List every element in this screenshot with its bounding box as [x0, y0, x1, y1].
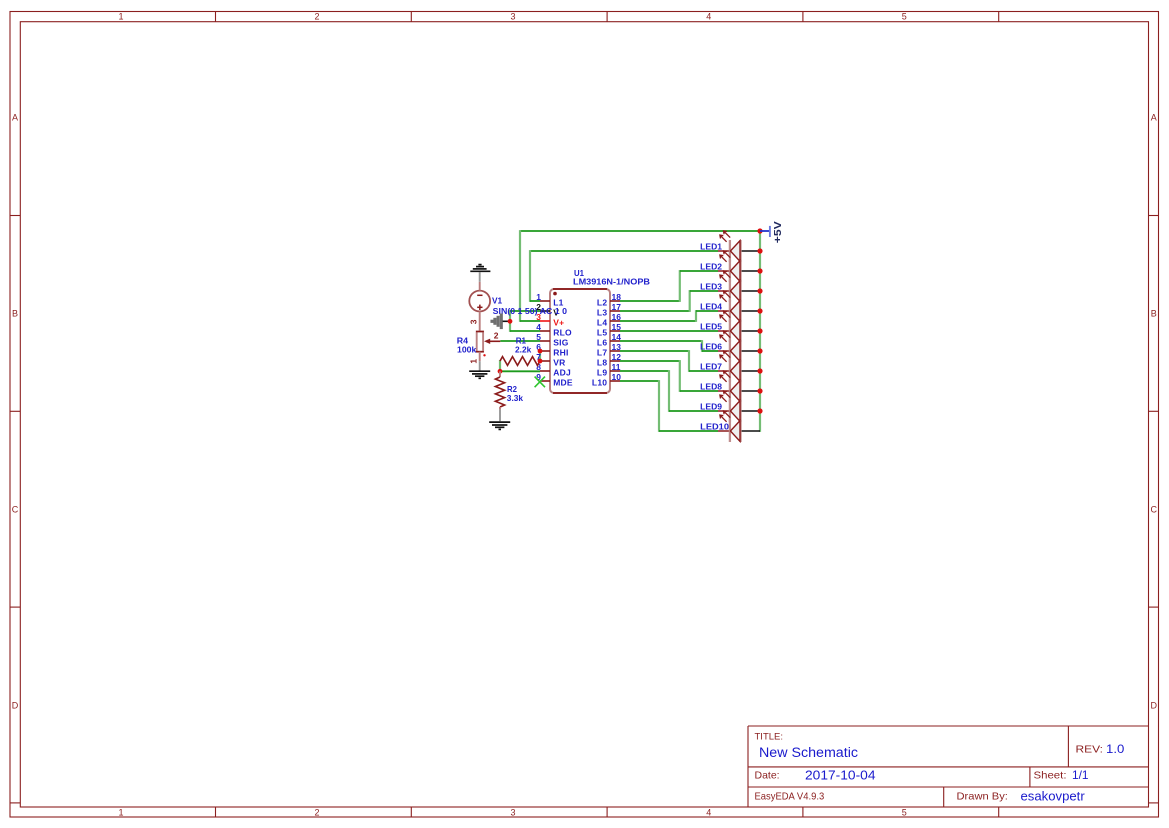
svg-text:V+: V+ [553, 317, 564, 327]
svg-text:C: C [12, 505, 19, 515]
svg-text:1: 1 [536, 292, 541, 302]
svg-text:RLO: RLO [553, 327, 572, 337]
svg-text:1: 1 [118, 807, 123, 817]
svg-text:MDE: MDE [553, 377, 573, 387]
svg-text:A: A [1151, 113, 1157, 123]
svg-text:2017-10-04: 2017-10-04 [805, 769, 876, 783]
svg-text:14: 14 [612, 332, 622, 342]
svg-text:VR: VR [553, 357, 565, 367]
svg-text:EasyEDA V4.9.3: EasyEDA V4.9.3 [755, 791, 825, 803]
svg-text:A: A [12, 113, 18, 123]
svg-text:LED5: LED5 [700, 321, 722, 331]
svg-text:C: C [1151, 505, 1158, 515]
svg-text:New Schematic: New Schematic [759, 745, 858, 760]
svg-text:LED6: LED6 [700, 341, 722, 351]
svg-text:1.0: 1.0 [1106, 742, 1125, 756]
svg-text:RHI: RHI [553, 347, 568, 357]
svg-text:L8: L8 [597, 357, 607, 367]
svg-text:5: 5 [536, 332, 541, 342]
svg-text:2: 2 [314, 12, 319, 22]
svg-text:16: 16 [612, 312, 622, 322]
svg-text:esakovpetr: esakovpetr [1021, 790, 1085, 804]
svg-text:LED1: LED1 [700, 241, 722, 251]
svg-text:L10: L10 [592, 377, 607, 387]
svg-text:2.2k: 2.2k [515, 345, 532, 355]
svg-text:3: 3 [468, 319, 478, 324]
svg-text:LED4: LED4 [700, 301, 722, 311]
svg-text:Drawn By:: Drawn By: [957, 791, 1008, 803]
svg-text:4: 4 [536, 322, 541, 332]
svg-text:11: 11 [612, 362, 621, 372]
svg-text:L7: L7 [597, 347, 607, 357]
svg-text:LM3916N-1/NOPB: LM3916N-1/NOPB [573, 277, 650, 287]
svg-text:Sheet:: Sheet: [1034, 770, 1067, 782]
svg-text:1/1: 1/1 [1072, 768, 1089, 782]
svg-text:SIG: SIG [553, 337, 569, 347]
svg-text:D: D [12, 701, 19, 711]
svg-text:5: 5 [902, 12, 907, 22]
svg-text:LED2: LED2 [700, 261, 722, 271]
svg-text:5: 5 [902, 807, 907, 817]
svg-text:L5: L5 [597, 327, 607, 337]
svg-text:REV:: REV: [1076, 745, 1104, 756]
svg-text:D: D [1151, 701, 1158, 711]
svg-text:1: 1 [468, 359, 478, 364]
svg-text:1: 1 [118, 12, 123, 22]
svg-text:100k: 100k [457, 344, 477, 354]
svg-text:B: B [12, 309, 18, 319]
svg-text:LED9: LED9 [700, 401, 722, 411]
svg-text:L4: L4 [597, 317, 607, 327]
svg-text:2: 2 [314, 807, 319, 817]
svg-text:TITLE:: TITLE: [755, 732, 784, 743]
svg-text:13: 13 [612, 342, 622, 352]
svg-text:L2: L2 [597, 297, 607, 307]
svg-text:18: 18 [612, 292, 622, 302]
svg-text:+5V: +5V [773, 221, 784, 243]
svg-text:L3: L3 [597, 307, 607, 317]
svg-text:12: 12 [612, 352, 622, 362]
svg-text:LED8: LED8 [700, 381, 722, 391]
svg-text:3: 3 [510, 12, 515, 22]
svg-text:15: 15 [612, 322, 622, 332]
svg-text:4: 4 [706, 12, 711, 22]
svg-text:17: 17 [612, 302, 622, 312]
svg-text:2: 2 [494, 331, 499, 341]
svg-text:ADJ: ADJ [553, 367, 571, 377]
svg-text:LED3: LED3 [700, 281, 722, 291]
svg-text:3.3k: 3.3k [507, 393, 524, 403]
svg-text:SIN(0 1 50) AC 1 0: SIN(0 1 50) AC 1 0 [493, 306, 568, 316]
svg-text:4: 4 [706, 807, 711, 817]
svg-text:LED10: LED10 [700, 421, 729, 431]
svg-text:B: B [1151, 309, 1157, 319]
svg-text:Date:: Date: [755, 770, 780, 782]
svg-text:L6: L6 [597, 337, 607, 347]
svg-text:L9: L9 [597, 367, 607, 377]
svg-text:V1: V1 [492, 296, 502, 306]
svg-text:10: 10 [612, 372, 622, 382]
svg-text:LED7: LED7 [700, 361, 722, 371]
svg-text:3: 3 [510, 807, 515, 817]
